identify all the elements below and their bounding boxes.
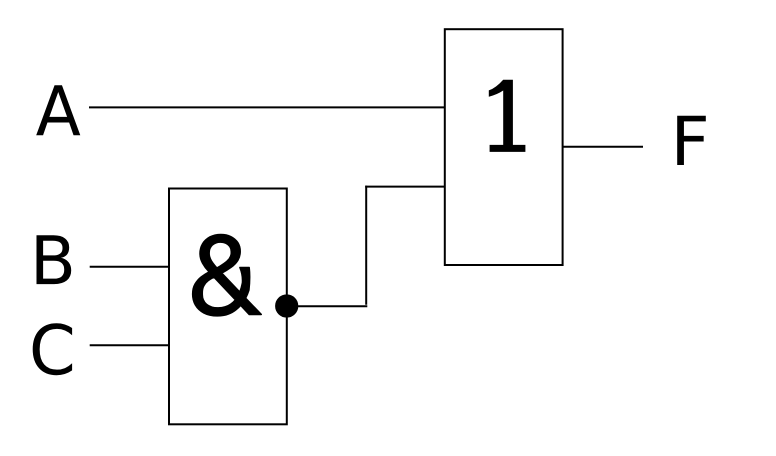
wire into OR second input bbox=[365, 186, 445, 188]
input label B bbox=[36, 235, 71, 284]
output label F bbox=[677, 116, 706, 165]
input label C bbox=[33, 323, 72, 375]
wire A to OR input bbox=[89, 106, 445, 108]
and-gate U1 label & bbox=[193, 235, 262, 316]
wire vertical riser bbox=[365, 186, 367, 305]
and-gate U1 body bbox=[169, 189, 287, 425]
inversion bubble on AND output bbox=[276, 295, 297, 316]
wire NAND output horizontal bbox=[297, 305, 367, 307]
wire F output bbox=[563, 146, 643, 148]
or-gate U2 label 1 bbox=[489, 80, 526, 152]
or-gate U2 body bbox=[445, 29, 563, 265]
wire C to AND input bbox=[90, 344, 169, 346]
input label A bbox=[36, 85, 80, 135]
wire B to AND input bbox=[90, 266, 169, 268]
